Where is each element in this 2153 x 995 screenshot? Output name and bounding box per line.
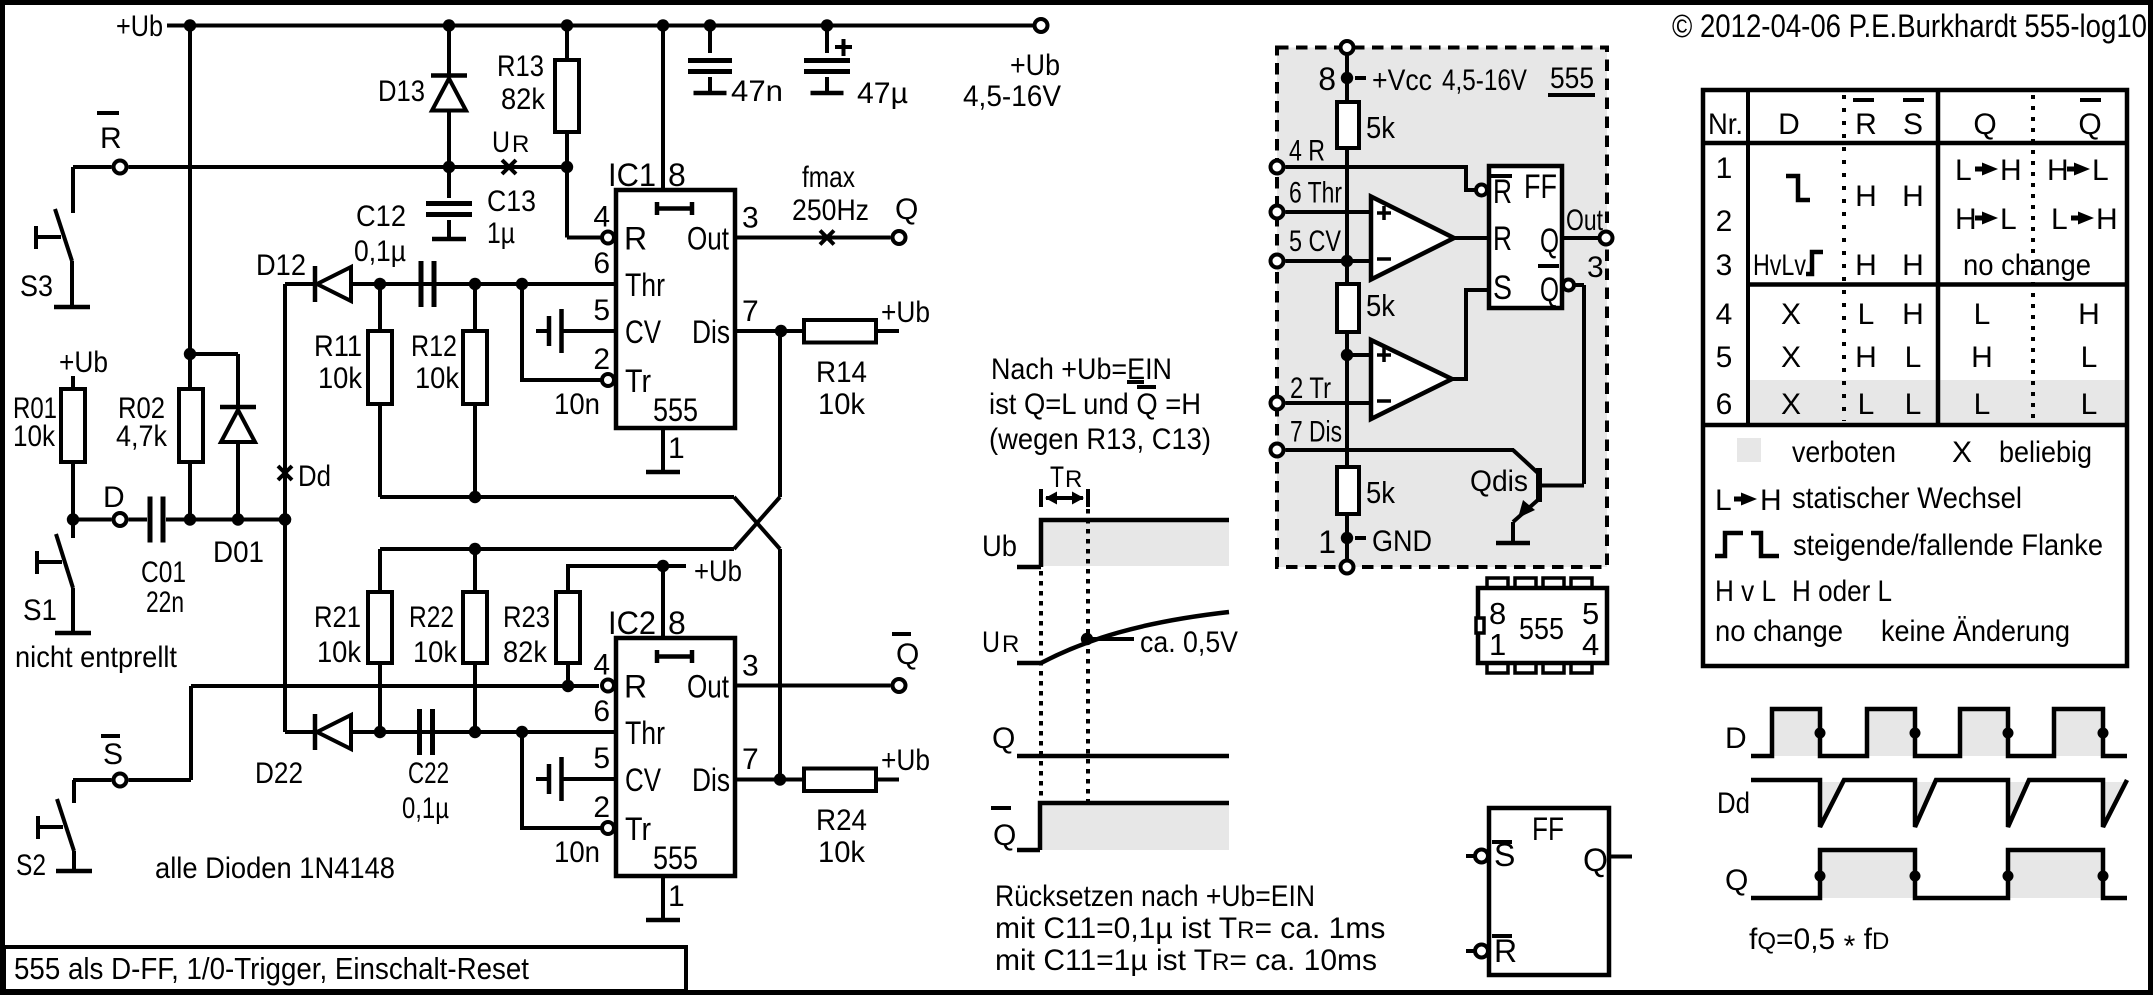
svg-text:S1: S1: [23, 594, 57, 627]
svg-text:8: 8: [668, 605, 686, 641]
svg-text:2: 2: [593, 343, 610, 376]
svg-text:Q: Q: [1725, 864, 1748, 897]
svg-text:Dis: Dis: [692, 314, 730, 350]
svg-text:1µ: 1µ: [487, 217, 515, 250]
svg-text:3: 3: [1716, 249, 1733, 282]
svg-text:statischer Wechsel: statischer Wechsel: [1792, 482, 2022, 515]
svg-text:4: 4: [1582, 627, 1599, 662]
svg-text:no change: no change: [1963, 249, 2091, 282]
svg-text:10k: 10k: [13, 420, 56, 453]
svg-text:H oder L: H oder L: [1792, 575, 1892, 608]
svg-text:L: L: [1905, 341, 1922, 374]
svg-text:1: 1: [668, 880, 685, 913]
svg-text:H: H: [1855, 249, 1877, 282]
svg-text:1: 1: [1716, 152, 1733, 185]
svg-text:1: 1: [1318, 524, 1336, 560]
svg-text:250Hz: 250Hz: [792, 194, 869, 227]
svg-text:5 CV: 5 CV: [1289, 225, 1341, 258]
svg-text:S2: S2: [16, 849, 46, 882]
svg-text:+Ub: +Ub: [59, 346, 108, 379]
svg-text:Out: Out: [687, 669, 729, 705]
svg-text:X: X: [1781, 341, 1801, 374]
svg-text:R23: R23: [503, 601, 550, 634]
svg-text:555 als D-FF, 1/0-Trigger, Ein: 555 als D-FF, 1/0-Trigger, Einschalt-Res…: [14, 951, 529, 986]
svg-text:5: 5: [1716, 341, 1733, 374]
svg-text:R: R: [1494, 933, 1517, 969]
svg-text:X: X: [1781, 298, 1801, 331]
svg-text:H: H: [2047, 154, 2069, 187]
svg-text:3: 3: [742, 202, 759, 235]
svg-text:4,5-16V: 4,5-16V: [963, 80, 1061, 113]
svg-text:Nach +Ub=EIN: Nach +Ub=EIN: [991, 353, 1172, 386]
svg-text:C22: C22: [408, 757, 449, 790]
svg-text:6: 6: [593, 247, 610, 280]
svg-text:R: R: [1493, 173, 1512, 211]
svg-text:mit C11=1µ ist TR= ca. 10ms: mit C11=1µ ist TR= ca. 10ms: [995, 944, 1377, 977]
svg-text:Q: Q: [2078, 108, 2101, 141]
svg-text:IC1: IC1: [608, 157, 656, 193]
svg-text:10k: 10k: [415, 362, 460, 395]
svg-text:10k: 10k: [818, 388, 866, 421]
svg-text:6 Thr: 6 Thr: [1289, 177, 1342, 210]
svg-text:nicht entprellt: nicht entprellt: [15, 641, 178, 674]
svg-text:FF: FF: [1532, 811, 1564, 847]
svg-text:6: 6: [1716, 388, 1733, 421]
svg-text:L: L: [1715, 484, 1732, 517]
svg-text:7 Dis: 7 Dis: [1290, 416, 1342, 449]
svg-text:H: H: [1955, 203, 1977, 236]
svg-text:2: 2: [1716, 205, 1733, 238]
svg-text:R: R: [624, 221, 647, 257]
svg-text:© 2012-04-06 P.E.Burkhardt 555: © 2012-04-06 P.E.Burkhardt 555-log10: [1672, 8, 2147, 44]
svg-text:D: D: [103, 481, 125, 514]
svg-text:L: L: [1955, 154, 1972, 187]
svg-text:H: H: [1902, 298, 1924, 331]
svg-text:R11: R11: [314, 330, 362, 363]
svg-text:Dis: Dis: [692, 762, 730, 798]
svg-text:L: L: [1905, 388, 1922, 421]
svg-text:no change: no change: [1715, 615, 1843, 648]
svg-text:L: L: [1858, 388, 1875, 421]
svg-text:C13: C13: [487, 185, 536, 218]
svg-text:S: S: [103, 738, 123, 771]
svg-text:R: R: [1493, 220, 1512, 258]
svg-text:8: 8: [1318, 61, 1336, 97]
svg-text:7: 7: [742, 295, 759, 328]
svg-text:HvLv: HvLv: [1753, 249, 1806, 282]
svg-text:10k: 10k: [318, 362, 363, 395]
svg-text:L: L: [2051, 203, 2068, 236]
svg-text:555: 555: [1550, 62, 1594, 95]
svg-text:Dd: Dd: [298, 460, 331, 493]
svg-text:ist Q=L und Q =H: ist Q=L und Q =H: [989, 388, 1201, 421]
svg-text:R: R: [1855, 108, 1877, 141]
svg-text:H: H: [1902, 180, 1924, 213]
svg-text:Q: Q: [1540, 222, 1559, 260]
svg-text:H: H: [2078, 298, 2100, 331]
svg-text:82k: 82k: [501, 83, 546, 116]
svg-text:10k: 10k: [317, 636, 362, 669]
svg-text:L: L: [2000, 203, 2017, 236]
svg-text:D: D: [1778, 108, 1800, 141]
svg-text:L: L: [1974, 388, 1991, 421]
svg-text:Q: Q: [992, 722, 1015, 755]
svg-text:+Vcc: +Vcc: [1372, 64, 1432, 97]
svg-text:82k: 82k: [503, 636, 548, 669]
svg-text:5: 5: [593, 742, 610, 775]
svg-text:+Ub: +Ub: [116, 10, 163, 43]
svg-text:Out: Out: [1566, 204, 1604, 237]
svg-text:Thr: Thr: [625, 715, 665, 751]
svg-text:4: 4: [593, 649, 610, 682]
svg-text:S3: S3: [20, 270, 53, 303]
svg-text:Q: Q: [1973, 108, 1996, 141]
svg-text:5k: 5k: [1366, 288, 1395, 323]
svg-text:H: H: [2000, 154, 2022, 187]
svg-text:1: 1: [668, 432, 685, 465]
svg-text:Q: Q: [1540, 271, 1559, 309]
svg-text:+Ub: +Ub: [881, 744, 930, 777]
svg-text:Qdis: Qdis: [1470, 465, 1528, 498]
svg-text:X: X: [1952, 436, 1972, 469]
svg-text:S: S: [1493, 269, 1512, 307]
svg-text:5k: 5k: [1366, 475, 1395, 510]
svg-text:L: L: [2092, 154, 2109, 187]
svg-text:5k: 5k: [1366, 110, 1395, 145]
svg-text:2 Tr: 2 Tr: [1290, 372, 1331, 405]
svg-text:7: 7: [742, 743, 759, 776]
svg-text:(wegen R13, C13): (wegen R13, C13): [989, 423, 1211, 456]
svg-text:0,1µ: 0,1µ: [402, 792, 449, 825]
svg-text:Nr.: Nr.: [1708, 108, 1743, 141]
svg-text:alle Dioden 1N4148: alle Dioden 1N4148: [155, 852, 395, 885]
svg-text:H: H: [1902, 249, 1924, 282]
svg-text:0,1µ: 0,1µ: [354, 235, 406, 268]
svg-text:+Ub: +Ub: [1010, 49, 1060, 82]
svg-text:verboten: verboten: [1792, 436, 1896, 469]
svg-text:+Ub: +Ub: [881, 296, 930, 329]
svg-text:R: R: [1002, 631, 1019, 658]
svg-text:4 R: 4 R: [1289, 135, 1325, 168]
svg-text:10n: 10n: [554, 388, 600, 421]
svg-text:Thr: Thr: [625, 267, 665, 303]
svg-text:Ub: Ub: [982, 530, 1017, 563]
svg-text:1: 1: [1489, 627, 1506, 662]
svg-text:D01: D01: [213, 536, 264, 569]
svg-text:10k: 10k: [413, 636, 458, 669]
svg-text:5: 5: [593, 294, 610, 327]
svg-text:4: 4: [593, 201, 610, 234]
svg-text:10k: 10k: [818, 836, 866, 869]
svg-text:S: S: [1903, 108, 1923, 141]
svg-text:D: D: [1725, 722, 1747, 755]
svg-text:Tr: Tr: [625, 363, 651, 399]
svg-text:2: 2: [593, 791, 610, 824]
svg-text:L: L: [2081, 388, 2098, 421]
svg-text:4: 4: [1716, 298, 1733, 331]
svg-text:8: 8: [1489, 596, 1506, 631]
svg-text:3: 3: [742, 650, 759, 683]
svg-text:8: 8: [668, 157, 686, 193]
svg-text:R12: R12: [411, 330, 457, 363]
svg-text:Dd: Dd: [1717, 787, 1750, 820]
svg-text:D22: D22: [255, 757, 303, 790]
svg-text:CV: CV: [625, 762, 662, 798]
svg-text:R24: R24: [816, 804, 867, 837]
svg-text:R14: R14: [816, 356, 867, 389]
svg-text:R22: R22: [409, 601, 454, 634]
svg-text:L: L: [1974, 298, 1991, 331]
svg-text:R13: R13: [497, 50, 544, 83]
svg-text:22n: 22n: [146, 586, 184, 619]
svg-text:H: H: [2096, 203, 2118, 236]
svg-text:CV: CV: [625, 314, 662, 350]
svg-text:X: X: [1781, 388, 1801, 421]
svg-text:Tr: Tr: [625, 811, 651, 847]
svg-text:Q: Q: [896, 638, 919, 671]
svg-text:R21: R21: [314, 601, 361, 634]
svg-text:U: U: [492, 126, 510, 159]
svg-text:H: H: [1971, 341, 1993, 374]
svg-text:Q: Q: [895, 193, 918, 226]
svg-text:R: R: [100, 122, 122, 155]
svg-text:+Ub: +Ub: [694, 555, 742, 588]
svg-text:4,7k: 4,7k: [116, 420, 168, 453]
svg-text:Rücksetzen nach +Ub=EIN: Rücksetzen nach +Ub=EIN: [995, 880, 1315, 913]
svg-text:GND: GND: [1372, 525, 1432, 558]
svg-text:L: L: [1858, 298, 1875, 331]
svg-text:R: R: [624, 669, 647, 705]
svg-text:ca. 0,5V: ca. 0,5V: [1140, 626, 1238, 659]
svg-text:U: U: [982, 626, 1000, 659]
svg-text:6: 6: [593, 695, 610, 728]
svg-text:IC2: IC2: [608, 605, 656, 641]
svg-text:D12: D12: [256, 249, 306, 282]
svg-text:T: T: [1050, 461, 1064, 494]
svg-text:H: H: [1855, 341, 1877, 374]
svg-text:D13: D13: [378, 75, 425, 108]
svg-text:C01: C01: [141, 556, 186, 589]
svg-text:keine Änderung: keine Änderung: [1881, 615, 2070, 648]
svg-text:R: R: [512, 131, 529, 158]
svg-text:H: H: [1855, 180, 1877, 213]
svg-text:555: 555: [1519, 611, 1564, 646]
svg-text:47µ: 47µ: [857, 77, 908, 110]
svg-text:Q: Q: [1583, 842, 1608, 878]
svg-text:FF: FF: [1524, 168, 1557, 206]
svg-text:fmax: fmax: [802, 161, 855, 194]
svg-text:555: 555: [653, 840, 698, 876]
svg-text:5: 5: [1582, 596, 1599, 631]
svg-text:4,5-16V: 4,5-16V: [1442, 64, 1527, 97]
svg-text:47n: 47n: [731, 75, 783, 108]
svg-text:H: H: [1760, 484, 1782, 517]
svg-text:C12: C12: [356, 200, 406, 233]
svg-text:555: 555: [653, 392, 698, 428]
svg-text:mit C11=0,1µ ist TR= ca. 1ms: mit C11=0,1µ ist TR= ca. 1ms: [995, 912, 1385, 945]
svg-text:beliebig: beliebig: [1999, 436, 2092, 469]
svg-text:3: 3: [1587, 251, 1604, 284]
svg-text:R: R: [1065, 466, 1082, 493]
svg-text:L: L: [2081, 341, 2098, 374]
svg-text:H v L: H v L: [1715, 575, 1776, 608]
svg-text:steigende/fallende Flanke: steigende/fallende Flanke: [1793, 529, 2103, 562]
svg-text:Q: Q: [993, 819, 1016, 852]
svg-text:10n: 10n: [554, 836, 600, 869]
svg-text:Out: Out: [687, 221, 729, 257]
